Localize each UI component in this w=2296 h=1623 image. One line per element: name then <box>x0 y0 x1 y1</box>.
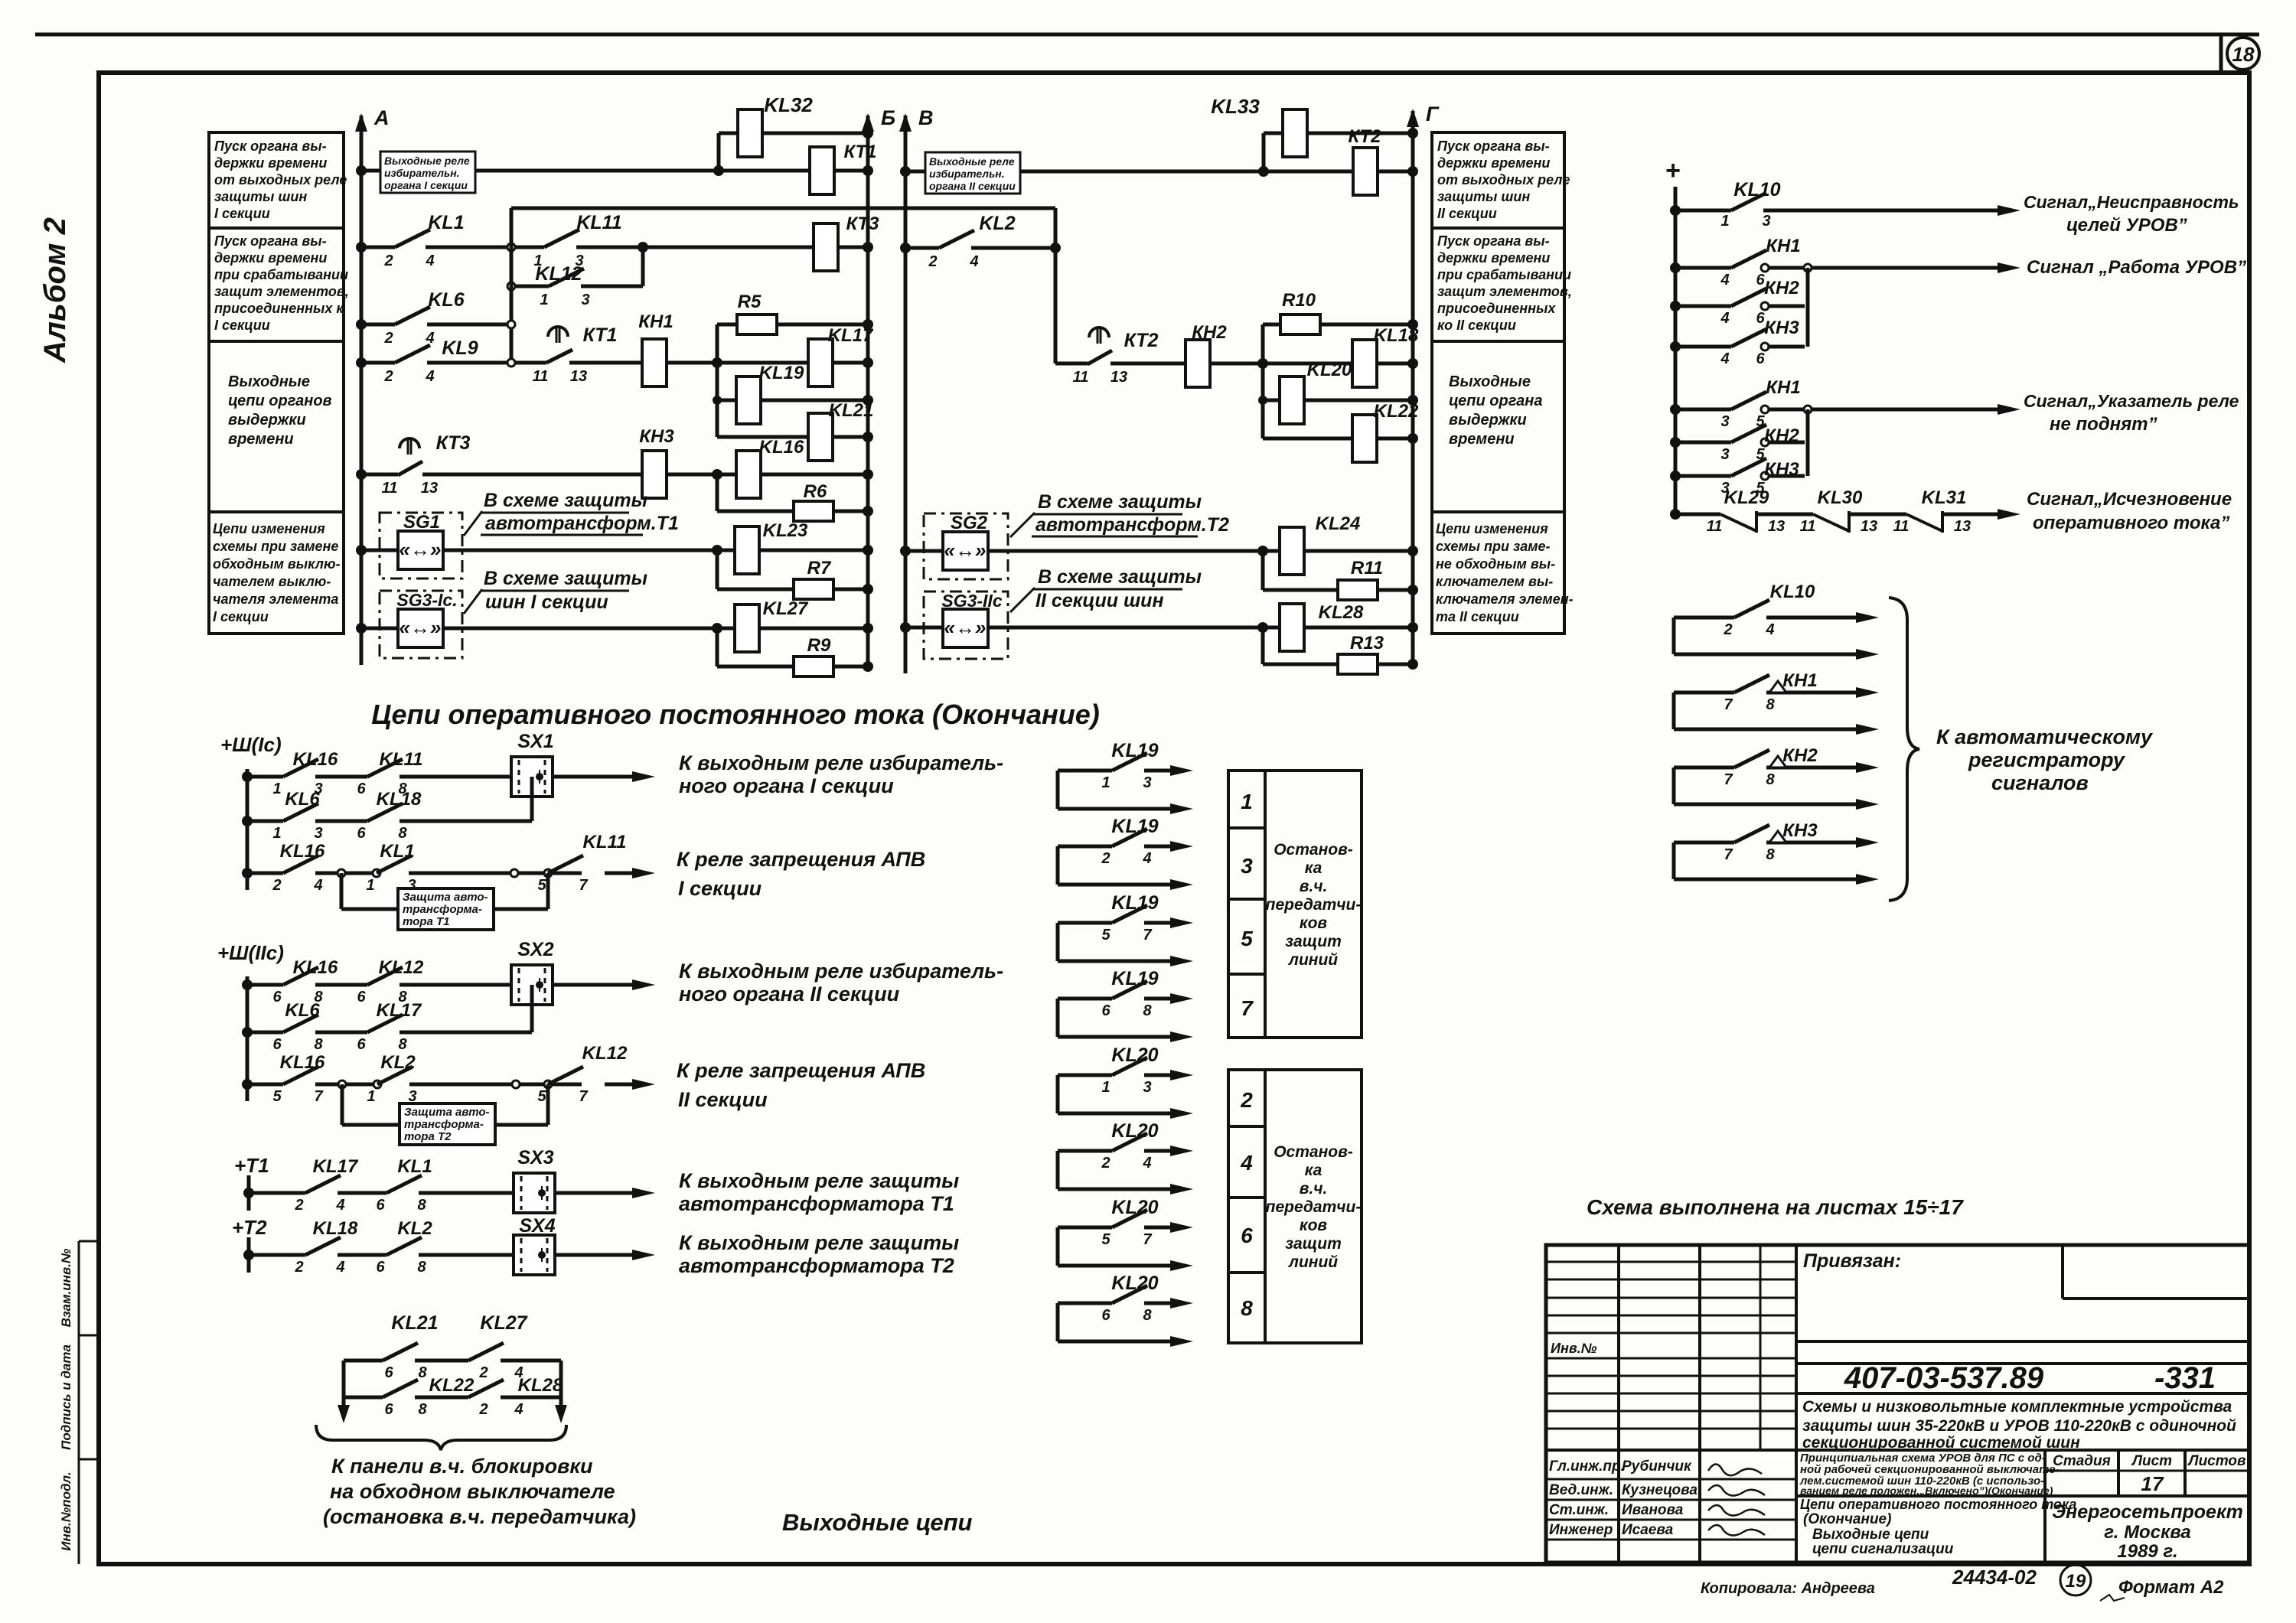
svg-text:не поднят”: не поднят” <box>2050 414 2157 435</box>
svg-text:KL22: KL22 <box>429 1375 475 1396</box>
svg-text:KL17: KL17 <box>828 325 874 346</box>
svg-text:Цепи оперативного постоянного: Цепи оперативного постоянного тока <box>1800 1497 2076 1512</box>
bus Г <box>1411 111 1415 664</box>
svg-text:R9: R9 <box>807 635 831 656</box>
relay KL32 branch wire <box>717 133 721 171</box>
svg-text:6: 6 <box>357 825 366 842</box>
svg-text:В схеме защиты: В схеме защиты <box>484 490 647 511</box>
svg-text:времени: времени <box>1449 431 1515 448</box>
svg-text:линий: линий <box>1288 951 1338 969</box>
resistor R11 branch <box>1263 588 1413 592</box>
relay coil KH1 <box>642 339 667 386</box>
svg-text:6: 6 <box>384 1364 393 1381</box>
left margin column lines <box>78 1241 80 1564</box>
sheet number circle 18 <box>2227 37 2259 70</box>
svg-text:Выходные цепи: Выходные цепи <box>782 1509 973 1536</box>
wire KL2 row <box>905 246 939 250</box>
contact KH3 row group2 <box>1670 471 1681 481</box>
svg-text:4: 4 <box>425 330 434 347</box>
svg-text:тора Т1: тора Т1 <box>403 915 449 928</box>
callout В схеме защиты автотрансформ.Т2 <box>1010 513 1035 537</box>
svg-text:3: 3 <box>1143 774 1151 791</box>
svg-text:6: 6 <box>384 1401 393 1418</box>
svg-text:6: 6 <box>357 781 366 797</box>
svg-text:КТ2: КТ2 <box>1124 330 1159 351</box>
svg-text:Энергосетьпроект: Энергосетьпроект <box>2052 1501 2243 1523</box>
svg-text:8: 8 <box>418 1401 427 1418</box>
svg-text:автотрансформ.Т1: автотрансформ.Т1 <box>485 513 679 534</box>
svg-text:ка: ка <box>1305 1162 1322 1179</box>
wire KL12 row <box>511 285 549 288</box>
svg-text:в.ч.: в.ч. <box>1300 878 1328 895</box>
svg-text:органа I секции: органа I секции <box>384 179 468 191</box>
bus В <box>904 116 908 673</box>
wire SG2 row <box>905 549 1263 553</box>
svg-text:ков: ков <box>1300 914 1327 932</box>
box Остановка вч передатчиков защит линий 2 <box>1265 1070 1362 1343</box>
resistor R5 branch <box>717 323 868 327</box>
svg-text:+Ш(Iс): +Ш(Iс) <box>220 733 282 756</box>
relay coil KH3 <box>642 451 667 498</box>
svg-text:при срабатывании: при срабатывании <box>1437 267 1571 282</box>
relay coil KL22 branch <box>1263 437 1413 441</box>
svg-text:Выходные реле: Выходные реле <box>384 155 470 167</box>
svg-text:Цепи изменения: Цепи изменения <box>1436 521 1548 536</box>
node KL28 <box>1257 622 1268 633</box>
svg-text:Сигнал „Работа УРОВ”: Сигнал „Работа УРОВ” <box>2027 257 2246 278</box>
svg-text:8: 8 <box>1241 1296 1253 1320</box>
svg-text:R6: R6 <box>804 481 827 502</box>
svg-text:KL12: KL12 <box>582 1043 628 1064</box>
contact KH2 row group2 <box>1670 437 1681 448</box>
svg-text:КН1: КН1 <box>1782 670 1817 691</box>
svg-text:В схеме защиты: В схеме защиты <box>484 568 647 589</box>
svg-text:Рубинчик: Рубинчик <box>1622 1458 1692 1475</box>
svg-text:1: 1 <box>1101 774 1110 791</box>
svg-text:2: 2 <box>294 1197 303 1214</box>
svg-text:I секции: I секции <box>214 318 270 333</box>
node KL27 <box>712 623 722 634</box>
relay coil KL21 branch <box>717 435 868 439</box>
svg-text:на обходном выключателе: на обходном выключателе <box>330 1480 615 1503</box>
svg-text:KL2: KL2 <box>979 213 1015 234</box>
svg-text:ков: ков <box>1300 1217 1327 1234</box>
svg-text:SG3-Iс.: SG3-Iс. <box>396 590 457 610</box>
svg-text:SG1: SG1 <box>403 512 440 533</box>
svg-text:8: 8 <box>398 1036 407 1053</box>
svg-text:времени: времени <box>228 431 294 448</box>
contact KL2 +Т2 <box>386 1237 422 1255</box>
svg-text:KL12: KL12 <box>379 957 424 978</box>
svg-text:13: 13 <box>1861 518 1877 535</box>
svg-text:KL11: KL11 <box>583 832 627 852</box>
svg-text:SG3-IIс: SG3-IIс <box>941 591 1002 611</box>
svg-text:К выходным реле избиратель-: К выходным реле избиратель- <box>679 751 1003 774</box>
svg-text:4: 4 <box>425 253 434 269</box>
relay coil KL20 branch <box>1263 399 1413 402</box>
svg-text:SX3: SX3 <box>517 1147 553 1168</box>
svg-text:чателя элемента: чателя элемента <box>213 592 338 607</box>
svg-text:II секции: II секции <box>678 1088 768 1111</box>
svg-text:KL20: KL20 <box>1111 1197 1158 1218</box>
contact KL1 +Т1 <box>386 1175 422 1193</box>
registrator row KL10 <box>1672 618 1676 654</box>
svg-text:7: 7 <box>1241 996 1254 1020</box>
ladder row KL19 pins 1-3 <box>1056 771 1060 809</box>
svg-text:KL19: KL19 <box>1111 892 1158 914</box>
svg-text:1: 1 <box>1101 1079 1110 1096</box>
wire KL6 row <box>361 323 395 327</box>
terminal box 1-3-5-7 <box>1228 771 1265 1038</box>
wire row C2 KL16 KL2 KL12 <box>242 1079 253 1090</box>
svg-text:тора Т2: тора Т2 <box>404 1130 452 1143</box>
svg-text:4: 4 <box>1240 1151 1253 1175</box>
svg-text:КН1: КН1 <box>1766 236 1800 256</box>
svg-text:4: 4 <box>1720 272 1729 288</box>
svg-text:5: 5 <box>1241 927 1253 950</box>
signal row KH1 Указатель реле не поднят <box>1670 404 1681 415</box>
contact KL12 row A2 <box>367 967 403 985</box>
contact KL16 row A2 <box>283 967 318 985</box>
svg-text:2: 2 <box>478 1364 488 1381</box>
svg-text:КН3: КН3 <box>1764 318 1799 338</box>
contact KL16 row C2 <box>283 1067 318 1084</box>
svg-text:KL19: KL19 <box>1111 968 1158 989</box>
svg-text:Схемы и низковольтные комплек: Схемы и низковольтные комплектные устрой… <box>1802 1398 2232 1416</box>
svg-text:Сигнал„Неисправность: Сигнал„Неисправность <box>2024 192 2239 212</box>
svg-text:R13: R13 <box>1350 633 1384 653</box>
wire KL21 KL27 top row <box>344 1359 383 1363</box>
wire SG3-IIc row <box>905 626 1263 630</box>
svg-text:Сигнал„Указатель реле: Сигнал„Указатель реле <box>2024 391 2239 411</box>
svg-text:R7: R7 <box>807 558 832 578</box>
contact KL28 <box>468 1380 504 1397</box>
contact KL16 row A <box>283 759 318 777</box>
svg-text:4: 4 <box>313 877 322 894</box>
svg-text:8: 8 <box>417 1259 426 1276</box>
relay KL33 branch wire <box>1262 133 1266 171</box>
svg-text:3: 3 <box>1241 854 1253 878</box>
svg-text:3: 3 <box>1720 446 1729 463</box>
svg-text:В: В <box>918 106 934 129</box>
test block SX1 <box>511 757 553 797</box>
svg-text:KL16: KL16 <box>293 749 338 770</box>
svg-text:2: 2 <box>294 1259 303 1276</box>
svg-text:KL20: KL20 <box>1111 1120 1158 1142</box>
node column I lower cluster KT3 <box>712 469 722 480</box>
ladder row KL20 pins 2-4 <box>1056 1151 1060 1189</box>
svg-text:4: 4 <box>335 1259 344 1276</box>
relay coil KT3 <box>814 223 838 271</box>
svg-text:Привязан:: Привязан: <box>1803 1250 1901 1272</box>
contact KL2 <box>939 230 974 248</box>
svg-text:+: + <box>1665 156 1681 185</box>
contact KL1 row C <box>377 855 412 873</box>
contact KL6 <box>395 307 430 324</box>
svg-text:11: 11 <box>1893 518 1910 535</box>
relay coil KL32 <box>738 109 762 157</box>
svg-text:KL6: KL6 <box>285 1000 320 1021</box>
svg-text:-331: -331 <box>2154 1361 2216 1395</box>
test block SX2 <box>511 965 553 1005</box>
svg-text:1: 1 <box>1241 790 1253 813</box>
time contact KT2 row <box>1055 362 1088 366</box>
svg-text:держки времени: держки времени <box>214 155 327 171</box>
svg-text:8: 8 <box>418 1364 427 1381</box>
svg-text:Сигнал„Исчезновение: Сигнал„Исчезновение <box>2027 489 2232 510</box>
svg-text:SX1: SX1 <box>517 731 553 752</box>
svg-text:защит элементов,: защит элементов, <box>214 284 349 299</box>
time contact KT1 <box>546 350 572 363</box>
top trim line <box>35 33 2259 37</box>
title block outer frame <box>1546 1245 2249 1563</box>
wire row 1 II-section <box>905 170 1413 174</box>
svg-text:6: 6 <box>376 1259 385 1276</box>
svg-text:KL20: KL20 <box>1307 360 1352 380</box>
resistor R9 branch <box>717 665 868 669</box>
resistor R10 branch <box>1263 323 1413 327</box>
svg-text:Останов-: Останов- <box>1274 1143 1353 1161</box>
svg-text:чателем выклю-: чателем выклю- <box>213 574 331 589</box>
svg-text:3: 3 <box>1720 413 1729 430</box>
svg-text:2: 2 <box>478 1401 488 1418</box>
svg-text:+Ш(IIс): +Ш(IIс) <box>217 941 284 964</box>
svg-text:К реле запрещения АПВ: К реле запрещения АПВ <box>677 1059 925 1082</box>
svg-text:KL23: KL23 <box>763 520 808 541</box>
svg-text:6: 6 <box>272 989 282 1005</box>
svg-text:KL10: KL10 <box>1733 179 1780 200</box>
svg-text:присоединенных: присоединенных <box>1437 301 1556 316</box>
box Остановка вч передатчиков защит линий 1 <box>1265 771 1362 1038</box>
svg-text:8: 8 <box>1143 1002 1152 1019</box>
svg-text:2: 2 <box>928 253 937 270</box>
svg-text:защит элементов,: защит элементов, <box>1437 284 1572 299</box>
contact KL31 <box>1906 514 1942 531</box>
svg-text:7: 7 <box>579 1088 588 1105</box>
registrator row КН3 <box>1672 842 1676 879</box>
right annotation column box II section <box>1432 132 1564 634</box>
svg-text:КТ3: КТ3 <box>436 432 471 454</box>
ladder row KL20 pins 6-8 <box>1056 1303 1060 1341</box>
svg-text:6: 6 <box>1241 1224 1253 1247</box>
test block SX3 <box>514 1173 555 1213</box>
svg-text:3: 3 <box>314 825 322 842</box>
svg-text:KL11: KL11 <box>576 212 621 233</box>
svg-text:4: 4 <box>335 1197 344 1214</box>
svg-text:Взам.инв.№: Взам.инв.№ <box>59 1248 73 1327</box>
relay coil KL17 branch <box>717 361 868 365</box>
svg-text:держки времени: держки времени <box>1437 250 1550 266</box>
svg-text:1: 1 <box>1720 213 1729 230</box>
wire row 1 I-section <box>361 169 868 173</box>
svg-text:Выходные: Выходные <box>228 373 310 390</box>
title block left grid horizontals <box>1546 1261 1796 1263</box>
svg-text:1: 1 <box>540 292 548 308</box>
svg-text:«↔»: «↔» <box>400 616 442 639</box>
svg-text:2: 2 <box>383 253 393 269</box>
svg-text:«↔»: «↔» <box>944 616 987 639</box>
relay coil KL33 <box>1283 109 1307 157</box>
svg-text:Исаева: Исаева <box>1622 1522 1674 1538</box>
svg-text:11: 11 <box>1073 369 1089 386</box>
svg-text:Инв.№: Инв.№ <box>1551 1341 1597 1356</box>
svg-text:Пуск органа вы-: Пуск органа вы- <box>214 139 327 154</box>
svg-text:держки времени: держки времени <box>214 250 327 266</box>
svg-text:KL19: KL19 <box>1111 740 1158 761</box>
svg-text:KL9: KL9 <box>442 337 478 359</box>
svg-text:KL10: KL10 <box>1770 582 1815 602</box>
svg-text:2: 2 <box>383 368 393 385</box>
title block right horizontals <box>1796 1340 2249 1343</box>
svg-text:KL27: KL27 <box>480 1312 527 1334</box>
ladder row KL19 pins 2-4 <box>1056 846 1060 885</box>
svg-text:Защита авто-: Защита авто- <box>403 891 488 904</box>
callout В схеме защиты автотрансформ.Т1 <box>464 511 482 536</box>
svg-text:5: 5 <box>272 1088 282 1105</box>
svg-text:Ст.инж.: Ст.инж. <box>1549 1502 1609 1518</box>
svg-text:КН1: КН1 <box>638 311 673 332</box>
svg-text:2: 2 <box>1101 1155 1110 1172</box>
svg-text:та II секции: та II секции <box>1436 609 1519 624</box>
svg-text:держки времени: держки времени <box>1437 155 1550 171</box>
label box Выходные реле избирательн. органа I секции <box>380 152 475 193</box>
svg-text:в.ч.: в.ч. <box>1300 1180 1328 1198</box>
time contact KT3 <box>398 461 422 475</box>
ladder row KL20 pins 1-3 <box>1056 1075 1060 1113</box>
svg-text:Подпись и дата: Подпись и дата <box>59 1344 73 1450</box>
svg-text:КН2: КН2 <box>1782 745 1818 766</box>
bus Б <box>866 116 870 666</box>
ladder row KL19 pins 6-8 <box>1056 999 1060 1037</box>
svg-text:8: 8 <box>417 1197 426 1214</box>
wire row C KL16 KL1 KL11 <box>242 868 253 878</box>
bypass box Защита автотрансформатора Т1 <box>340 873 344 909</box>
contact KL29 <box>1720 514 1756 531</box>
svg-text:схемы при замене: схемы при замене <box>213 539 338 554</box>
contact KL11 <box>544 230 579 247</box>
svg-text:ключателем вы-: ключателем вы- <box>1436 574 1553 589</box>
svg-text:407-03-537.89: 407-03-537.89 <box>1844 1361 2044 1395</box>
svg-text:Пуск органа вы-: Пуск органа вы- <box>1437 139 1550 154</box>
svg-text:17: 17 <box>2141 1472 2164 1495</box>
contact KL11 row C <box>548 855 583 873</box>
contact KL22 <box>383 1380 418 1397</box>
svg-text:KL2: KL2 <box>380 1052 416 1073</box>
svg-text:ключателя элемен-: ключателя элемен- <box>1436 592 1574 607</box>
svg-text:R10: R10 <box>1282 290 1316 311</box>
svg-text:1989 г.: 1989 г. <box>2117 1541 2177 1562</box>
svg-text:1: 1 <box>367 1088 375 1105</box>
svg-text:КН1: КН1 <box>1766 377 1800 398</box>
svg-text:Защита авто-: Защита авто- <box>404 1106 490 1119</box>
long link wire from I to II section <box>511 207 1055 210</box>
svg-text:цепи органов: цепи органов <box>228 393 332 409</box>
svg-text:KL18: KL18 <box>313 1218 358 1239</box>
svg-text:К реле запрещения АПВ: К реле запрещения АПВ <box>677 848 925 871</box>
wire row A +Ш(Iс) SX1 <box>242 771 253 782</box>
svg-text:7: 7 <box>1143 1231 1152 1248</box>
svg-text:KL29: KL29 <box>1724 487 1769 508</box>
contact KL30 <box>1813 514 1849 531</box>
sheet number box top-right <box>2219 34 2223 73</box>
callout В схеме защиты шин I секции <box>464 589 482 614</box>
relay coil KT1 <box>810 147 834 194</box>
svg-text:+Т2: +Т2 <box>232 1216 267 1239</box>
svg-text:А: А <box>373 106 390 129</box>
svg-text:5: 5 <box>537 1088 546 1105</box>
svg-text:6: 6 <box>1101 1002 1110 1019</box>
contact KH2 row group1 <box>1670 301 1681 311</box>
svg-text:8: 8 <box>1766 696 1775 713</box>
right link vertical group1 <box>1806 268 1810 347</box>
svg-text:5: 5 <box>1101 1231 1110 1248</box>
wire +Т1 row <box>249 1191 305 1195</box>
svg-text:избирательн.: избирательн. <box>929 168 1005 180</box>
svg-text:Гл.инж.пр.: Гл.инж.пр. <box>1549 1458 1625 1475</box>
svg-text:KL16: KL16 <box>280 1052 325 1073</box>
wire SG3-Ic row <box>361 627 717 631</box>
resistor R7 branch <box>717 588 868 592</box>
svg-text:от выходных реле: от выходных реле <box>1437 172 1570 187</box>
svg-text:KL32: KL32 <box>764 93 813 116</box>
svg-text:4: 4 <box>1720 310 1729 327</box>
svg-text:13: 13 <box>1954 518 1971 535</box>
svg-text:ванием реле положен.„Включено”: ванием реле положен.„Включено”)(Окончани… <box>1800 1484 2053 1497</box>
svg-text:3: 3 <box>1762 213 1770 230</box>
svg-text:ного органа I секции: ного органа I секции <box>679 774 894 797</box>
svg-text:В схеме защиты: В схеме защиты <box>1038 566 1202 588</box>
svg-text:сигналов: сигналов <box>1991 771 2089 794</box>
svg-text:выдержки: выдержки <box>1449 412 1527 429</box>
svg-text:Цепи изменения: Цепи изменения <box>213 521 325 536</box>
bypass box Защита автотрансформатора Т2 <box>341 1084 344 1125</box>
svg-text:18: 18 <box>2232 43 2255 66</box>
svg-text:4: 4 <box>1142 1155 1151 1172</box>
svg-text:автотрансформатора Т1: автотрансформатора Т1 <box>679 1192 954 1215</box>
svg-text:присоединенных к: присоединенных к <box>214 301 344 316</box>
svg-text:защит: защит <box>1285 933 1342 950</box>
svg-text:6: 6 <box>357 989 366 1005</box>
svg-text:7: 7 <box>1724 771 1733 788</box>
svg-text:шин I секции: шин I секции <box>485 592 608 613</box>
svg-text:13: 13 <box>1110 369 1127 386</box>
relay coil KL19 branch <box>717 399 868 402</box>
svg-text:цепи органа: цепи органа <box>1449 393 1542 409</box>
registrator brace <box>1889 598 1919 901</box>
svg-text:Инженер: Инженер <box>1549 1522 1613 1538</box>
svg-text:Останов-: Останов- <box>1274 841 1353 859</box>
svg-text:11: 11 <box>533 368 549 385</box>
svg-text:SG2: SG2 <box>951 513 988 533</box>
svg-text:5: 5 <box>1101 927 1110 943</box>
relay coil KH2 <box>1186 340 1210 387</box>
svg-text:Формат А2: Формат А2 <box>2118 1577 2224 1598</box>
svg-text:8: 8 <box>314 1036 323 1053</box>
svg-text:КН2: КН2 <box>1764 278 1799 298</box>
svg-text:схемы при заме-: схемы при заме- <box>1436 539 1551 554</box>
svg-text:KL1: KL1 <box>380 841 414 862</box>
contact KL1 <box>395 230 430 247</box>
svg-text:Кузнецова: Кузнецова <box>1622 1482 1698 1498</box>
svg-text:R11: R11 <box>1351 558 1383 578</box>
svg-text:защиты шин: защиты шин <box>1437 189 1530 204</box>
svg-text:Г: Г <box>1426 103 1440 125</box>
svg-text:KL30: KL30 <box>1818 487 1863 508</box>
svg-text:2: 2 <box>1723 621 1732 638</box>
wire KL22 KL28 bottom row <box>344 1396 383 1400</box>
resistor R6 branch <box>717 510 868 513</box>
svg-text:органа II секции: органа II секции <box>929 180 1016 192</box>
